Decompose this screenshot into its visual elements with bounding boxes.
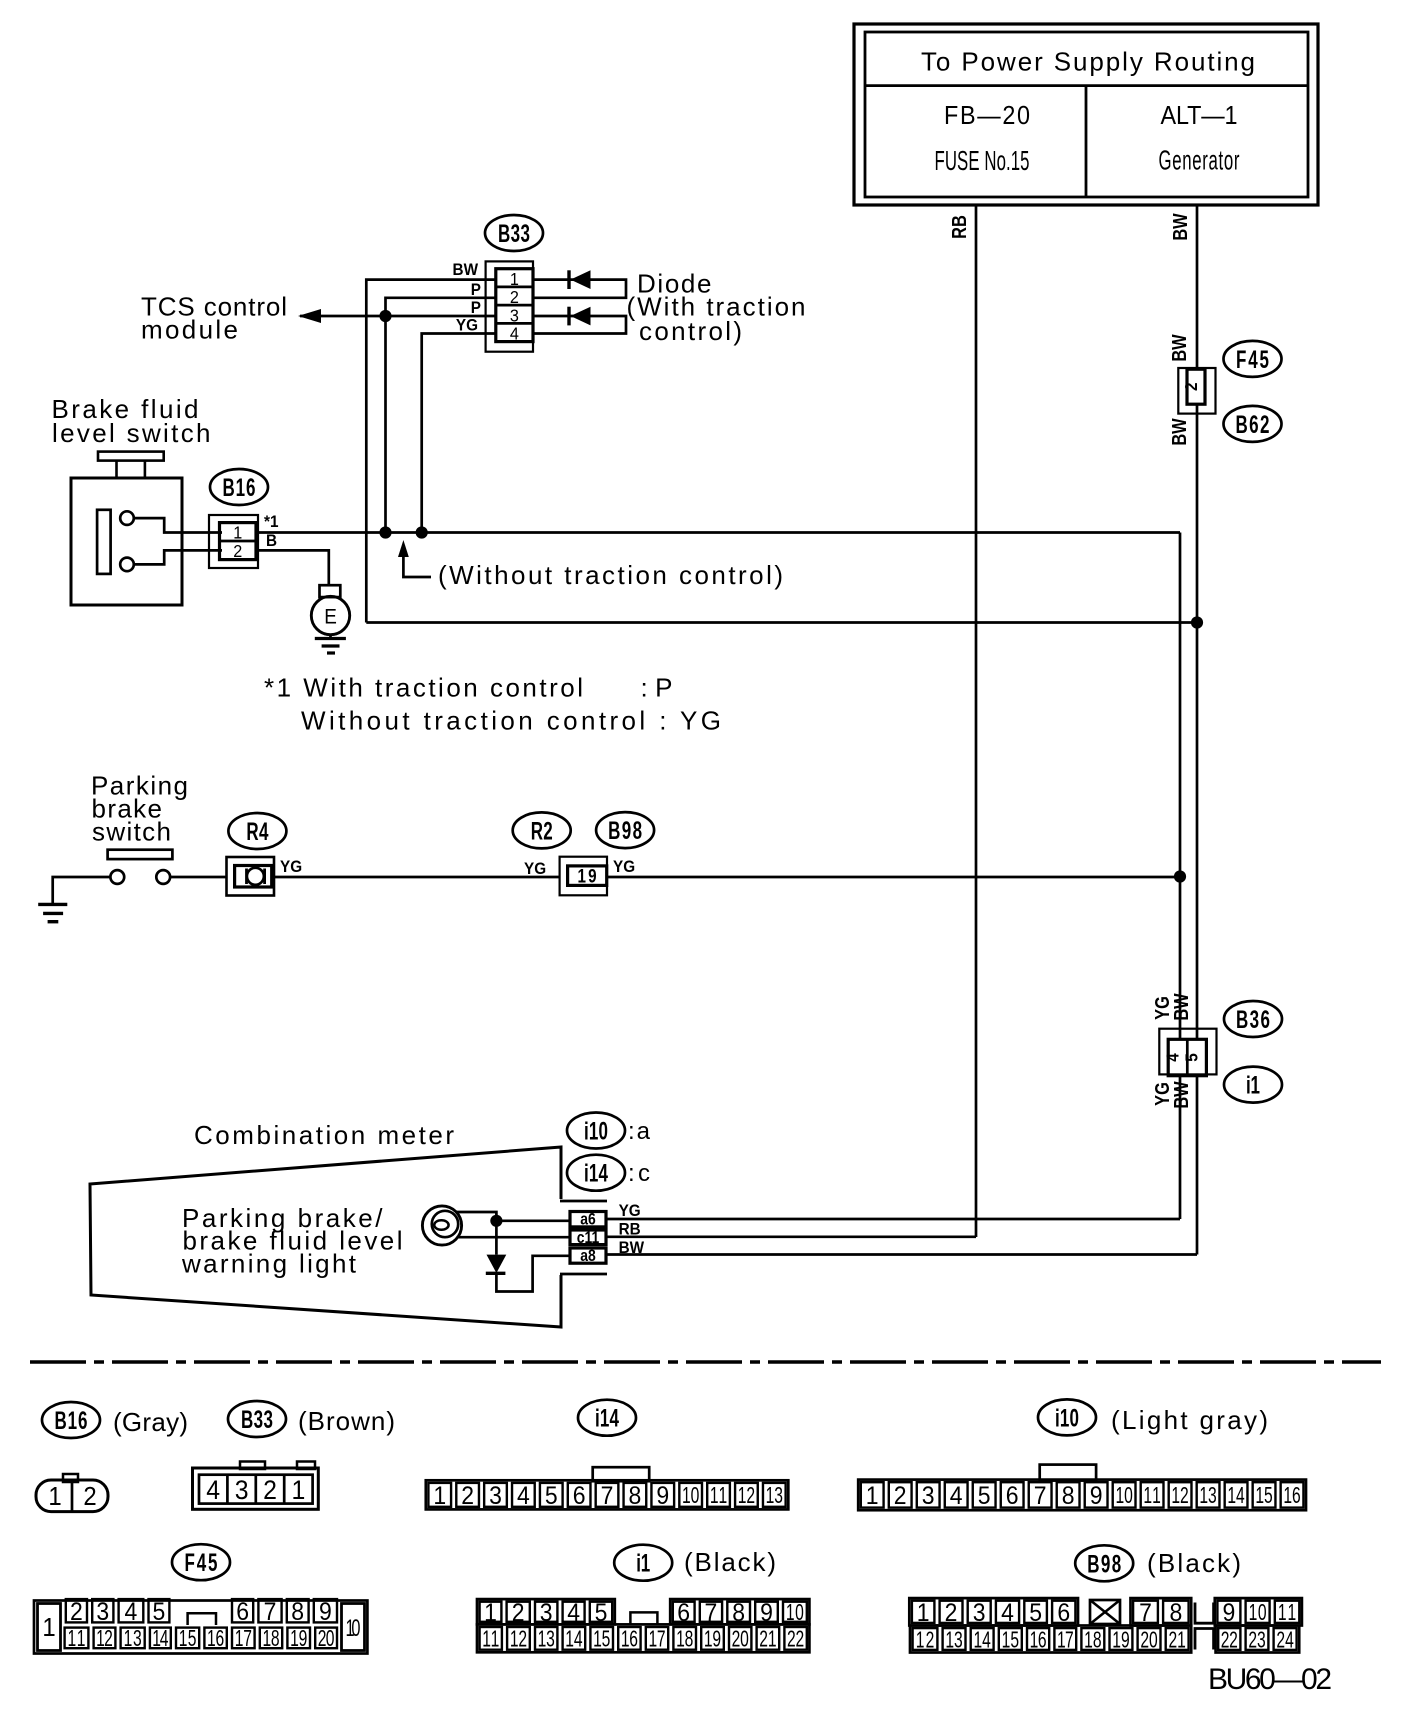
svg-text:12: 12 (510, 1627, 527, 1653)
svg-text:2: 2 (263, 1476, 277, 1505)
svg-text:16: 16 (1030, 1627, 1047, 1653)
svg-text:YG: YG (524, 859, 546, 878)
svg-text:a6: a6 (580, 1210, 596, 1229)
label RB at meter (619, 1220, 641, 1239)
svg-text:1: 1 (48, 1482, 61, 1511)
svg-text:4: 4 (1163, 1053, 1183, 1062)
label Parking brake switch (91, 770, 188, 846)
connector F45/B62 inline pin 2 (1178, 368, 1215, 414)
svg-text:3: 3 (922, 1482, 935, 1510)
oval R2 (513, 812, 571, 848)
svg-text:FB—20: FB—20 (944, 102, 1030, 130)
svg-text:1: 1 (291, 1476, 305, 1505)
svg-text:9: 9 (319, 1598, 332, 1626)
oval B98 (596, 812, 654, 848)
oval B33 legend (228, 1401, 395, 1437)
svg-text:1: 1 (510, 269, 519, 289)
svg-text:8: 8 (629, 1482, 642, 1510)
svg-text:B16: B16 (55, 1407, 88, 1435)
svg-text:6: 6 (1057, 1599, 1070, 1627)
svg-text:24: 24 (1276, 1627, 1294, 1653)
svg-text:YG: YG (456, 316, 478, 335)
wire YG vertical lower (1179, 1076, 1182, 1219)
label BW above B36 (1169, 993, 1192, 1021)
svg-text:switch: switch (92, 816, 171, 846)
svg-text:15: 15 (1255, 1483, 1272, 1509)
svg-text:8: 8 (1169, 1599, 1182, 1627)
svg-text:4: 4 (1001, 1599, 1014, 1627)
without traction control pointer (398, 540, 783, 590)
svg-text:18: 18 (1084, 1627, 1101, 1653)
svg-text:c11: c11 (577, 1229, 600, 1248)
svg-text:17: 17 (235, 1626, 252, 1652)
connector i1 face 1-22 (477, 1599, 809, 1653)
svg-text:TCS control: TCS control (141, 292, 287, 322)
svg-text:1: 1 (866, 1482, 879, 1510)
oval B98 legend (1075, 1545, 1241, 1581)
svg-text:19: 19 (704, 1627, 721, 1653)
svg-text:4: 4 (206, 1476, 220, 1505)
svg-text:18: 18 (262, 1626, 279, 1652)
oval i1 (1224, 1067, 1282, 1103)
svg-text:9: 9 (760, 1599, 773, 1627)
svg-text:(Black): (Black) (684, 1547, 776, 1577)
svg-text:10: 10 (786, 1600, 804, 1626)
svg-text:BW: BW (1167, 418, 1190, 446)
svg-text:4: 4 (567, 1599, 580, 1627)
svg-text:F45: F45 (1236, 346, 1269, 374)
svg-text:13: 13 (124, 1626, 142, 1652)
diode D3 in meter (486, 1221, 569, 1292)
svg-text:19: 19 (1112, 1627, 1129, 1653)
switch contact left (110, 870, 124, 884)
svg-text:9: 9 (656, 1482, 669, 1510)
svg-text:1: 1 (433, 1482, 446, 1510)
wire RB meter (605, 1235, 977, 1238)
wire BW from B33 pin1 (366, 280, 496, 623)
label YG after R4 (280, 857, 302, 876)
svg-text:22: 22 (787, 1627, 804, 1653)
label YG pin4 (456, 316, 478, 335)
svg-text:13: 13 (945, 1627, 962, 1653)
label YG above B36 (1150, 996, 1173, 1020)
wire BW meter (605, 1253, 1198, 1256)
note *1 legend (264, 673, 721, 736)
oval i14 legend (578, 1400, 636, 1436)
svg-text:23: 23 (1248, 1627, 1265, 1653)
oval B16 (210, 469, 268, 505)
svg-text:2: 2 (945, 1599, 958, 1627)
svg-text:12: 12 (738, 1483, 755, 1509)
label Diode (With traction control) (627, 269, 806, 346)
brake fluid reservoir body (71, 452, 182, 605)
svg-text:13: 13 (766, 1483, 783, 1509)
svg-text:BW: BW (1169, 993, 1192, 1021)
svg-text:*1: *1 (264, 512, 278, 531)
svg-text:5: 5 (1182, 1053, 1202, 1062)
svg-text:14: 14 (152, 1626, 168, 1652)
svg-text:9: 9 (1223, 1599, 1236, 1627)
svg-text:2: 2 (461, 1482, 474, 1510)
svg-text:4: 4 (510, 324, 519, 344)
svg-text:2: 2 (233, 541, 242, 561)
label P pin2 (471, 280, 481, 299)
svg-text:i1: i1 (636, 1549, 650, 1577)
svg-text:2: 2 (512, 1599, 525, 1627)
svg-text:i14: i14 (584, 1159, 608, 1187)
svg-text:P: P (471, 280, 481, 299)
connector B33 face 4-3-2-1 (193, 1462, 319, 1510)
svg-text:8: 8 (1062, 1482, 1075, 1510)
svg-text:a8: a8 (580, 1247, 596, 1266)
svg-text:2: 2 (83, 1482, 96, 1511)
svg-text:FUSE No.15: FUSE No.15 (935, 145, 1030, 177)
svg-text:2: 2 (894, 1482, 907, 1510)
connector i10 face 1-16 (858, 1465, 1306, 1511)
svg-text:BW: BW (1168, 213, 1191, 241)
svg-text:*1 With traction control: *1 With traction control (264, 673, 583, 703)
svg-text:8: 8 (291, 1598, 304, 1626)
wire joint to YG vertical (607, 876, 1180, 879)
label Brake fluid level switch (52, 394, 211, 448)
svg-text:6: 6 (677, 1599, 690, 1627)
wire BW vertical from ALT-1 (1168, 205, 1197, 369)
diode D2 loop pin3-pin4 (533, 307, 626, 334)
label Combination meter (194, 1120, 454, 1150)
connector R2/B98 pin 19 (560, 857, 607, 896)
svg-text:1: 1 (917, 1599, 930, 1627)
oval F45 legend (172, 1544, 230, 1580)
ground parking brake (38, 877, 110, 922)
oval B36 (1224, 1001, 1282, 1037)
label BW pin1 (453, 260, 479, 279)
oval B62 (1224, 406, 1282, 442)
wire pin2 to ground E (256, 550, 329, 585)
svg-text:10: 10 (345, 1615, 360, 1642)
label YG at meter (619, 1201, 641, 1220)
label TCS control module (141, 292, 287, 345)
svg-text:B16: B16 (223, 474, 256, 502)
svg-text:12: 12 (1171, 1483, 1188, 1509)
svg-text:(Brown): (Brown) (298, 1406, 395, 1436)
svg-text:F45: F45 (185, 1549, 218, 1577)
svg-text:3: 3 (540, 1599, 553, 1627)
connector R4 (227, 857, 275, 896)
svg-text:11: 11 (68, 1626, 86, 1652)
svg-text:11: 11 (1143, 1483, 1160, 1509)
svg-text:1: 1 (233, 523, 242, 543)
svg-text:7: 7 (1034, 1482, 1047, 1510)
svg-text:3: 3 (973, 1599, 986, 1627)
svg-text::a: :a (628, 1118, 651, 1145)
svg-text:1: 1 (42, 1613, 55, 1642)
svg-text:8: 8 (732, 1599, 745, 1627)
switch contact right (156, 870, 170, 884)
svg-text:3: 3 (235, 1476, 249, 1505)
svg-text:9: 9 (1090, 1482, 1103, 1510)
svg-text:14: 14 (1227, 1483, 1244, 1509)
svg-text:5: 5 (153, 1598, 166, 1626)
svg-text:15: 15 (593, 1627, 610, 1653)
connector B98 face 1-24 (909, 1598, 1302, 1653)
switch contact top (120, 511, 134, 525)
svg-text:BW: BW (453, 260, 479, 279)
svg-text:RB: RB (947, 215, 970, 239)
wire P from B33 pin3 to TCS control module (298, 309, 496, 323)
svg-text:5: 5 (978, 1482, 991, 1510)
net FB-20 fuse no.15 (935, 102, 1031, 176)
svg-text:3: 3 (96, 1598, 109, 1626)
svg-text:B36: B36 (1236, 1006, 1270, 1034)
wire contact bottom to pin2 (134, 550, 222, 564)
wire lamp bottom to c11 (457, 1236, 570, 1239)
label *1 (264, 512, 278, 531)
svg-text:BW: BW (1167, 334, 1190, 362)
svg-text:i1: i1 (1246, 1071, 1260, 1099)
svg-text:14: 14 (973, 1627, 990, 1653)
svg-text:6: 6 (236, 1598, 249, 1626)
svg-text:3: 3 (489, 1482, 502, 1510)
svg-text:6: 6 (573, 1482, 586, 1510)
net ALT-1 generator (1159, 102, 1240, 176)
svg-text:2: 2 (70, 1598, 83, 1626)
label P pin3 (471, 298, 481, 317)
svg-text:(Light gray): (Light gray) (1111, 1405, 1268, 1435)
wire lamp top to a6 (457, 1212, 570, 1227)
svg-text:13: 13 (538, 1627, 555, 1653)
svg-text:12: 12 (916, 1627, 935, 1653)
svg-text:B33: B33 (498, 220, 530, 248)
svg-text:B: B (266, 531, 277, 550)
label Parking brake / brake fluid level warning light (181, 1203, 403, 1279)
svg-text:19: 19 (290, 1626, 307, 1652)
svg-text:7: 7 (705, 1599, 718, 1627)
connector meter a6 c11 a8 (570, 1210, 606, 1265)
oval F45 (1224, 341, 1282, 377)
svg-text:3: 3 (510, 306, 519, 326)
svg-text:7: 7 (264, 1598, 277, 1626)
svg-text:13: 13 (1199, 1483, 1216, 1509)
svg-text:11: 11 (482, 1627, 499, 1653)
svg-text:i14: i14 (595, 1404, 619, 1432)
svg-text:(Gray): (Gray) (113, 1407, 188, 1437)
oval i10 (567, 1113, 651, 1149)
connector B36/i1 pins 4-5 (1159, 1029, 1216, 1076)
svg-text:YG: YG (619, 1201, 641, 1220)
wire YG vertical right (1174, 533, 1186, 1040)
svg-text:12: 12 (96, 1626, 113, 1652)
label YG left of joint (524, 859, 546, 878)
wire BW vertical middle (1191, 404, 1203, 1039)
label BU60-02 (1208, 1663, 1332, 1696)
svg-text:BU60—02: BU60—02 (1208, 1663, 1332, 1696)
wire contact to R4 (170, 876, 227, 879)
wire BW vertical lower (1196, 1076, 1199, 1255)
power supply routing box (854, 24, 1318, 205)
wire RB vertical from FB-20 (947, 205, 976, 1237)
wire YG from B33 pin4 (416, 334, 496, 539)
svg-text:2: 2 (510, 287, 519, 307)
svg-text:16: 16 (1283, 1483, 1300, 1509)
label BW at meter (619, 1238, 645, 1257)
diode D1 loop pin1-pin2 (533, 270, 626, 298)
svg-text:E: E (324, 606, 337, 629)
svg-text:2: 2 (1181, 382, 1201, 391)
svg-text:22: 22 (1221, 1627, 1238, 1653)
label BW below B36 (1169, 1081, 1192, 1109)
svg-text:module: module (141, 315, 238, 345)
svg-text:20: 20 (318, 1626, 335, 1652)
svg-text:YG: YG (613, 857, 635, 876)
svg-text:14: 14 (565, 1627, 582, 1653)
oval i14 (567, 1155, 650, 1191)
svg-text:i10: i10 (1055, 1404, 1079, 1432)
svg-text:4: 4 (125, 1598, 138, 1626)
svg-text:i10: i10 (584, 1117, 608, 1145)
wire contact top to pin1 (134, 518, 222, 532)
svg-text:21: 21 (1168, 1627, 1185, 1653)
svg-text:Generator: Generator (1159, 144, 1240, 176)
wire BW horizontal to generator (366, 621, 1197, 624)
ground E (311, 585, 349, 653)
wire pin1 to YG vertical (258, 531, 1180, 534)
svg-text:B98: B98 (608, 817, 642, 845)
svg-text:R4: R4 (246, 818, 268, 846)
svg-text::c: :c (628, 1160, 650, 1187)
svg-text:4: 4 (517, 1482, 530, 1510)
connector i14 face 1-13 (426, 1467, 789, 1510)
connector B16 face 1-2 (36, 1474, 108, 1512)
oval B16 legend (42, 1402, 188, 1438)
wire R4 to joint connector (274, 876, 560, 879)
svg-text:11: 11 (1278, 1600, 1296, 1626)
svg-text:10: 10 (1249, 1600, 1267, 1626)
oval i1 legend (614, 1545, 776, 1581)
svg-text:P: P (471, 298, 481, 317)
svg-text:16: 16 (621, 1627, 638, 1653)
svg-text:10: 10 (1115, 1483, 1132, 1509)
svg-text:15: 15 (1002, 1627, 1020, 1653)
svg-text:B98: B98 (1087, 1550, 1121, 1578)
wire YG meter (605, 1218, 1181, 1221)
svg-text:B62: B62 (1236, 411, 1270, 439)
svg-text:11: 11 (710, 1483, 727, 1509)
oval B33 (485, 215, 543, 251)
warning lamp (422, 1206, 461, 1245)
svg-text:5: 5 (1029, 1599, 1042, 1627)
label YG below B36 (1150, 1082, 1173, 1106)
svg-text:(Black): (Black) (1147, 1548, 1241, 1578)
oval R4 (228, 813, 286, 849)
svg-text:5: 5 (545, 1482, 558, 1510)
svg-text:(Without traction control): (Without traction control) (438, 560, 783, 590)
svg-text:YG: YG (280, 857, 302, 876)
label BW above F45 (1167, 334, 1190, 362)
label B (266, 531, 277, 550)
svg-text:7: 7 (1139, 1599, 1152, 1627)
connector B16 pins 1-2 (209, 515, 258, 568)
svg-text:4: 4 (950, 1482, 963, 1510)
connector B33 pins 1-4 (486, 261, 533, 351)
svg-text:: P: : P (641, 673, 673, 703)
svg-text:17: 17 (648, 1627, 665, 1653)
switch contact bottom (120, 558, 134, 572)
svg-text:6: 6 (1006, 1482, 1019, 1510)
wire P from B33 pin2 (379, 298, 496, 539)
connector F45 face 1-20 (34, 1598, 367, 1654)
svg-text:ALT—1: ALT—1 (1160, 102, 1237, 130)
separator dashed line (30, 1360, 1381, 1364)
oval i10 legend (1038, 1399, 1268, 1435)
svg-text:B33: B33 (241, 1406, 273, 1434)
svg-text:16: 16 (207, 1626, 224, 1652)
svg-text:1: 1 (484, 1599, 497, 1627)
svg-text:15: 15 (179, 1626, 197, 1652)
svg-text:20: 20 (732, 1627, 749, 1653)
svg-text:10: 10 (682, 1483, 699, 1509)
svg-text:21: 21 (759, 1627, 776, 1653)
svg-text:20: 20 (1140, 1627, 1157, 1653)
svg-text:5: 5 (595, 1599, 608, 1627)
svg-text:18: 18 (676, 1627, 693, 1653)
parking brake lever bar (108, 850, 173, 859)
svg-text:7: 7 (601, 1482, 614, 1510)
combination meter outline (90, 1147, 607, 1327)
svg-text:17: 17 (1057, 1627, 1074, 1653)
svg-text:R2: R2 (531, 817, 553, 845)
svg-text:control): control) (639, 316, 742, 346)
label BW below F45 (1167, 418, 1190, 446)
label YG right of joint (613, 857, 635, 876)
